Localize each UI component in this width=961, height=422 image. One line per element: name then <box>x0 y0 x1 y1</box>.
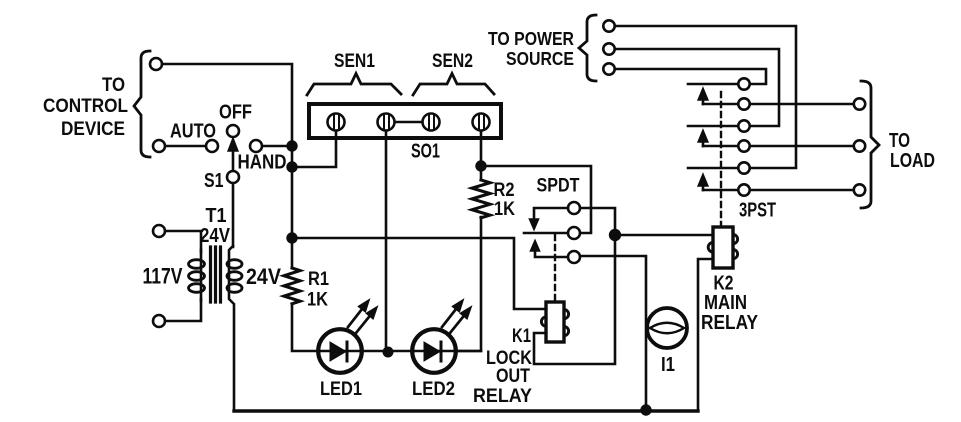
relay coil K2 body <box>713 227 733 268</box>
resistor R1 1K zigzag <box>284 268 300 304</box>
socket SO1 body <box>309 104 501 138</box>
svg-text:117V: 117V <box>143 264 183 289</box>
terminal: control device top <box>150 58 162 70</box>
SO1 screw slots <box>334 115 339 130</box>
wire: power line 3 to pole 1 stationary <box>615 69 766 84</box>
wire: bottom bus <box>234 409 698 412</box>
svg-text:LED1: LED1 <box>320 379 362 400</box>
svg-text:R1: R1 <box>308 269 329 290</box>
svg-text:1K: 1K <box>494 199 515 220</box>
relay coil K2 side bumps <box>708 235 737 259</box>
svg-text:SO1: SO1 <box>411 140 440 163</box>
SO1 screw terminal 2 <box>378 114 395 131</box>
terminal: load 2 <box>854 140 865 151</box>
junction node LED row <box>383 347 394 358</box>
terminal: AUTO left <box>153 140 165 152</box>
3PST pole2 arrowhead <box>698 130 708 142</box>
svg-text:LOAD: LOAD <box>890 149 935 172</box>
S1 selector arrow stem <box>232 149 235 171</box>
wire: pole 1 movable line to load <box>703 103 854 106</box>
svg-text:DEVICE: DEVICE <box>61 119 125 140</box>
svg-text:SEN2: SEN2 <box>432 51 473 72</box>
terminal: T1 primary top <box>153 225 165 237</box>
terminal: T1 primary bottom <box>153 315 165 327</box>
SPDT bottom contact <box>568 251 580 263</box>
wire: T1 primary bottom lead <box>165 299 201 321</box>
3PST pole1 stationary contact <box>738 78 749 89</box>
transformer T1 primary winding loops <box>189 260 205 269</box>
wire: R2 top node to SPDT common <box>481 166 591 233</box>
terminal: power source 3 <box>603 63 614 74</box>
wire: T1 primary top lead <box>165 231 201 252</box>
svg-text:MAIN: MAIN <box>704 292 747 314</box>
junction node R2 top <box>475 160 486 171</box>
dashed linkage: 3PST to K2 <box>720 92 722 227</box>
transformer T1 primary winding spine <box>200 250 203 301</box>
svg-text:HAND: HAND <box>238 151 287 174</box>
wire: SPDT common left stub <box>524 232 568 235</box>
brace: TO CONTROL DEVICE <box>134 51 150 157</box>
LED2 light arrows <box>442 308 465 334</box>
svg-text:SPDT: SPDT <box>537 176 580 197</box>
3PST pole2 movable contact <box>738 140 749 151</box>
3PST pole3 arrowhead <box>698 174 708 186</box>
svg-text:AUTO: AUTO <box>170 120 216 143</box>
svg-text:1K: 1K <box>307 290 328 311</box>
wire: HAND contact to bus <box>262 145 292 148</box>
svg-text:RELAY: RELAY <box>701 312 759 334</box>
brace: TO POWER SOURCE <box>579 15 596 81</box>
svg-text:OUT: OUT <box>496 366 530 387</box>
svg-text:3PST: 3PST <box>739 200 776 222</box>
wire: power line 1 to pole 3 stationary <box>615 26 796 168</box>
svg-text:RELAY: RELAY <box>473 386 532 407</box>
SPDT top throw arrowhead (down) <box>530 219 539 230</box>
relay coil K1 body <box>546 302 564 342</box>
LED1 diode triangle and bar <box>330 342 346 361</box>
resistor R2 1K zigzag <box>472 180 490 218</box>
wire: SPDT top throw to node 615 <box>580 208 615 235</box>
junction node at HAND <box>286 140 297 151</box>
terminal: load 3 <box>854 184 865 195</box>
wire: pole 1 blade riser <box>702 97 705 104</box>
svg-text:I1: I1 <box>661 353 675 376</box>
wire: pole 2 movable line to load <box>703 145 854 148</box>
3PST pole3 stationary contact <box>738 162 749 173</box>
LED2 diode triangle and bar <box>424 342 440 361</box>
terminal: AUTO right <box>206 140 218 152</box>
lamp I1 circle <box>647 308 687 348</box>
SPDT top contact <box>568 202 580 214</box>
wire: SPDT bottom throw to lamp I1 <box>580 256 646 405</box>
3PST pole1 movable contact <box>738 98 749 109</box>
svg-text:SOURCE: SOURCE <box>506 49 574 69</box>
lamp I1 filament lens <box>650 323 684 334</box>
svg-text:OFF: OFF <box>219 101 252 124</box>
svg-text:24V: 24V <box>246 264 281 289</box>
wire: pole 2 blade riser <box>702 139 705 146</box>
junction node to SO1 T1 <box>286 161 297 172</box>
svg-text:S1: S1 <box>204 169 224 192</box>
terminal: power source 1 <box>603 20 614 31</box>
3PST pole2 stationary contact <box>738 120 749 131</box>
transformer T1 secondary winding spine <box>229 246 234 411</box>
wire: node 615 down and to K1 coil bottom <box>534 235 615 364</box>
SPDT common contact <box>568 227 580 239</box>
wire: pole 3 blade riser <box>702 183 705 190</box>
svg-text:LED2: LED2 <box>412 379 455 400</box>
wire: power line 2 to pole 2 stationary <box>615 49 779 126</box>
svg-text:SEN1: SEN1 <box>334 51 375 72</box>
transformer T1 secondary winding loops <box>227 260 242 269</box>
svg-text:CONTROL: CONTROL <box>43 96 128 117</box>
LED1 circle <box>318 329 362 373</box>
svg-text:TO: TO <box>102 75 125 96</box>
wire: SO1 terminal2 to terminal3 link <box>394 121 423 124</box>
relay coil K1 side bumps <box>541 310 568 336</box>
svg-text:K1: K1 <box>512 326 531 347</box>
wire: R2 bottom to LED2 riser <box>456 217 481 351</box>
brace: SEN2 <box>413 74 494 96</box>
transformer T1 core bars <box>211 247 221 302</box>
SO1 screw terminal 4 <box>473 114 490 131</box>
3PST pole3 movable contact <box>738 184 749 195</box>
junction node bus/R1 top <box>286 232 297 243</box>
wire: SPDT bottom throw blade <box>535 249 569 257</box>
LED1 light arrows <box>348 308 371 334</box>
junction node bottom bus <box>640 404 651 415</box>
wire: SO1 terminal 2 down to LED junction <box>385 130 388 352</box>
wire: node 615 to K2 coil <box>615 234 713 237</box>
wire: AUTO contact link <box>165 145 206 148</box>
SO1 screw terminal 3 <box>423 114 440 131</box>
SPDT bottom throw arrowhead (up) <box>531 241 540 252</box>
wire: node to SO1 terminal 1 <box>292 132 336 167</box>
terminal: HAND <box>250 140 262 152</box>
LED2 circle <box>412 329 456 373</box>
wire: horizontal net y238 from bus to K1 coil top <box>292 238 546 309</box>
brace: TO LOAD <box>861 81 879 208</box>
svg-text:24V: 24V <box>200 224 230 247</box>
wire: control top terminal to bus x292 <box>162 64 292 146</box>
terminal: OFF <box>227 125 239 137</box>
wire: S1 arm down to T1 secondary <box>232 183 235 247</box>
wire: K2 coil bottom stub to bottom bus <box>698 259 713 410</box>
wire: SPDT top throw blade <box>534 208 568 221</box>
S1 selector arrowhead <box>228 138 238 151</box>
junction node SPDT/K2 <box>609 229 621 241</box>
wire: R1 bottom to LED row <box>292 304 481 351</box>
terminal: load 1 <box>854 98 865 109</box>
brace: SEN1 <box>307 74 401 96</box>
SO1 screw terminal 1 <box>328 114 345 131</box>
wire: LED row right riser to R2 bottom node <box>480 130 483 180</box>
svg-text:TO POWER: TO POWER <box>488 29 574 49</box>
terminal: S1 pole <box>227 171 239 183</box>
wire: bus x292 down to R1 <box>291 146 294 268</box>
svg-text:R2: R2 <box>494 180 515 201</box>
3PST pole1 arrowhead <box>698 88 708 100</box>
dashed linkage: SPDT to K1 <box>554 235 556 300</box>
wire: pole 3 movable line to load <box>703 189 854 192</box>
terminal: power source 2 <box>603 43 614 54</box>
